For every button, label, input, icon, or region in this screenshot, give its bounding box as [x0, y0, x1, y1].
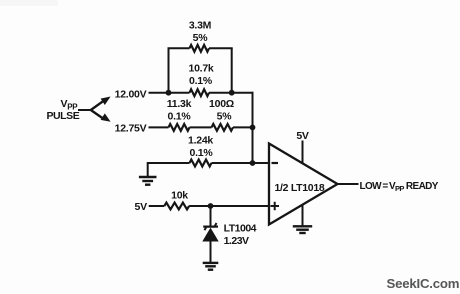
- wire row1 left: [149, 92, 190, 94]
- wire row3 right to minus input: [212, 162, 270, 164]
- svg-text:0.1%: 0.1%: [189, 75, 213, 87]
- wire row2 right: [233, 126, 253, 128]
- wire row4 right to plus input: [189, 205, 269, 207]
- wire zener top: [210, 206, 212, 226]
- faint scan artifact top-left: [0, 0, 58, 6]
- svg-text:SeekIC.com: SeekIC.com: [387, 276, 460, 291]
- svg-text:3.3M: 3.3M: [189, 20, 212, 32]
- svg-text:5%: 5%: [217, 111, 233, 123]
- wire fork lower arrow line: [91, 110, 105, 120]
- arrowhead lower: [101, 113, 111, 121]
- svg-text:10.7k: 10.7k: [188, 63, 213, 75]
- wire fork upper arrow line: [91, 100, 105, 110]
- op-amp plus sign: [271, 202, 280, 210]
- svg-text:5V: 5V: [296, 130, 309, 142]
- wire fork stem: [78, 109, 91, 111]
- svg-text:1/2 LT1018: 1/2 LT1018: [275, 182, 325, 194]
- svg-text:10k: 10k: [171, 190, 188, 202]
- wire row1 right: [209, 92, 253, 94]
- svg-text:LT1004: LT1004: [224, 222, 257, 234]
- svg-text:11.3k: 11.3k: [167, 98, 192, 110]
- ground below op-amp: [293, 226, 312, 233]
- zener diode LT1004 bar: [205, 223, 217, 230]
- svg-text:PULSE: PULSE: [47, 110, 80, 122]
- node junction row1 left: [166, 90, 172, 96]
- ground left: [139, 177, 157, 185]
- resistor 11.3k: [169, 124, 190, 131]
- wire row2 mid: [190, 126, 212, 128]
- wire top loop horizontal right: [209, 47, 233, 49]
- wire top loop horizontal left: [168, 47, 190, 49]
- svg-text:100Ω: 100Ω: [209, 98, 234, 110]
- node junction row1 right: [229, 90, 235, 96]
- resistor 3.3M: [190, 45, 210, 52]
- resistor 10k: [164, 203, 189, 210]
- svg-text:12.75V: 12.75V: [115, 122, 147, 134]
- resistor 100ohm: [212, 124, 234, 131]
- wire row2 left: [149, 126, 169, 128]
- svg-text:0.1%: 0.1%: [190, 147, 214, 159]
- arrowhead upper: [101, 97, 111, 106]
- node junction row2 bus: [250, 125, 256, 131]
- wire op-amp bottom to ground: [302, 205, 304, 226]
- node junction zener top: [208, 203, 214, 209]
- wire 5V supply to op-amp top: [302, 141, 304, 164]
- wire top loop right vertical: [231, 48, 233, 92]
- svg-text:5V: 5V: [135, 201, 148, 213]
- svg-text:0.1%: 0.1%: [168, 111, 192, 123]
- wire left ground stub: [147, 162, 149, 177]
- ground below zener: [203, 263, 219, 270]
- resistor 10.7k: [190, 89, 210, 96]
- op-amp minus sign: [272, 162, 279, 164]
- node junction row3 bus: [250, 160, 256, 166]
- svg-text:1.23V: 1.23V: [224, 235, 249, 247]
- svg-text:1.24k: 1.24k: [188, 135, 213, 147]
- wire top loop left vertical: [168, 48, 170, 92]
- wire row4 left: [149, 205, 165, 207]
- wire right vertical bus: [252, 92, 254, 163]
- svg-text:5%: 5%: [193, 32, 209, 44]
- wire zener bottom to ground: [210, 242, 212, 263]
- zener diode LT1004 triangle: [202, 228, 218, 242]
- wire output: [338, 183, 359, 185]
- wire row3 left: [148, 162, 190, 164]
- resistor 1.24k: [190, 160, 212, 167]
- svg-text:12.00V: 12.00V: [115, 88, 147, 100]
- op-amp U1 triangle: [269, 144, 338, 225]
